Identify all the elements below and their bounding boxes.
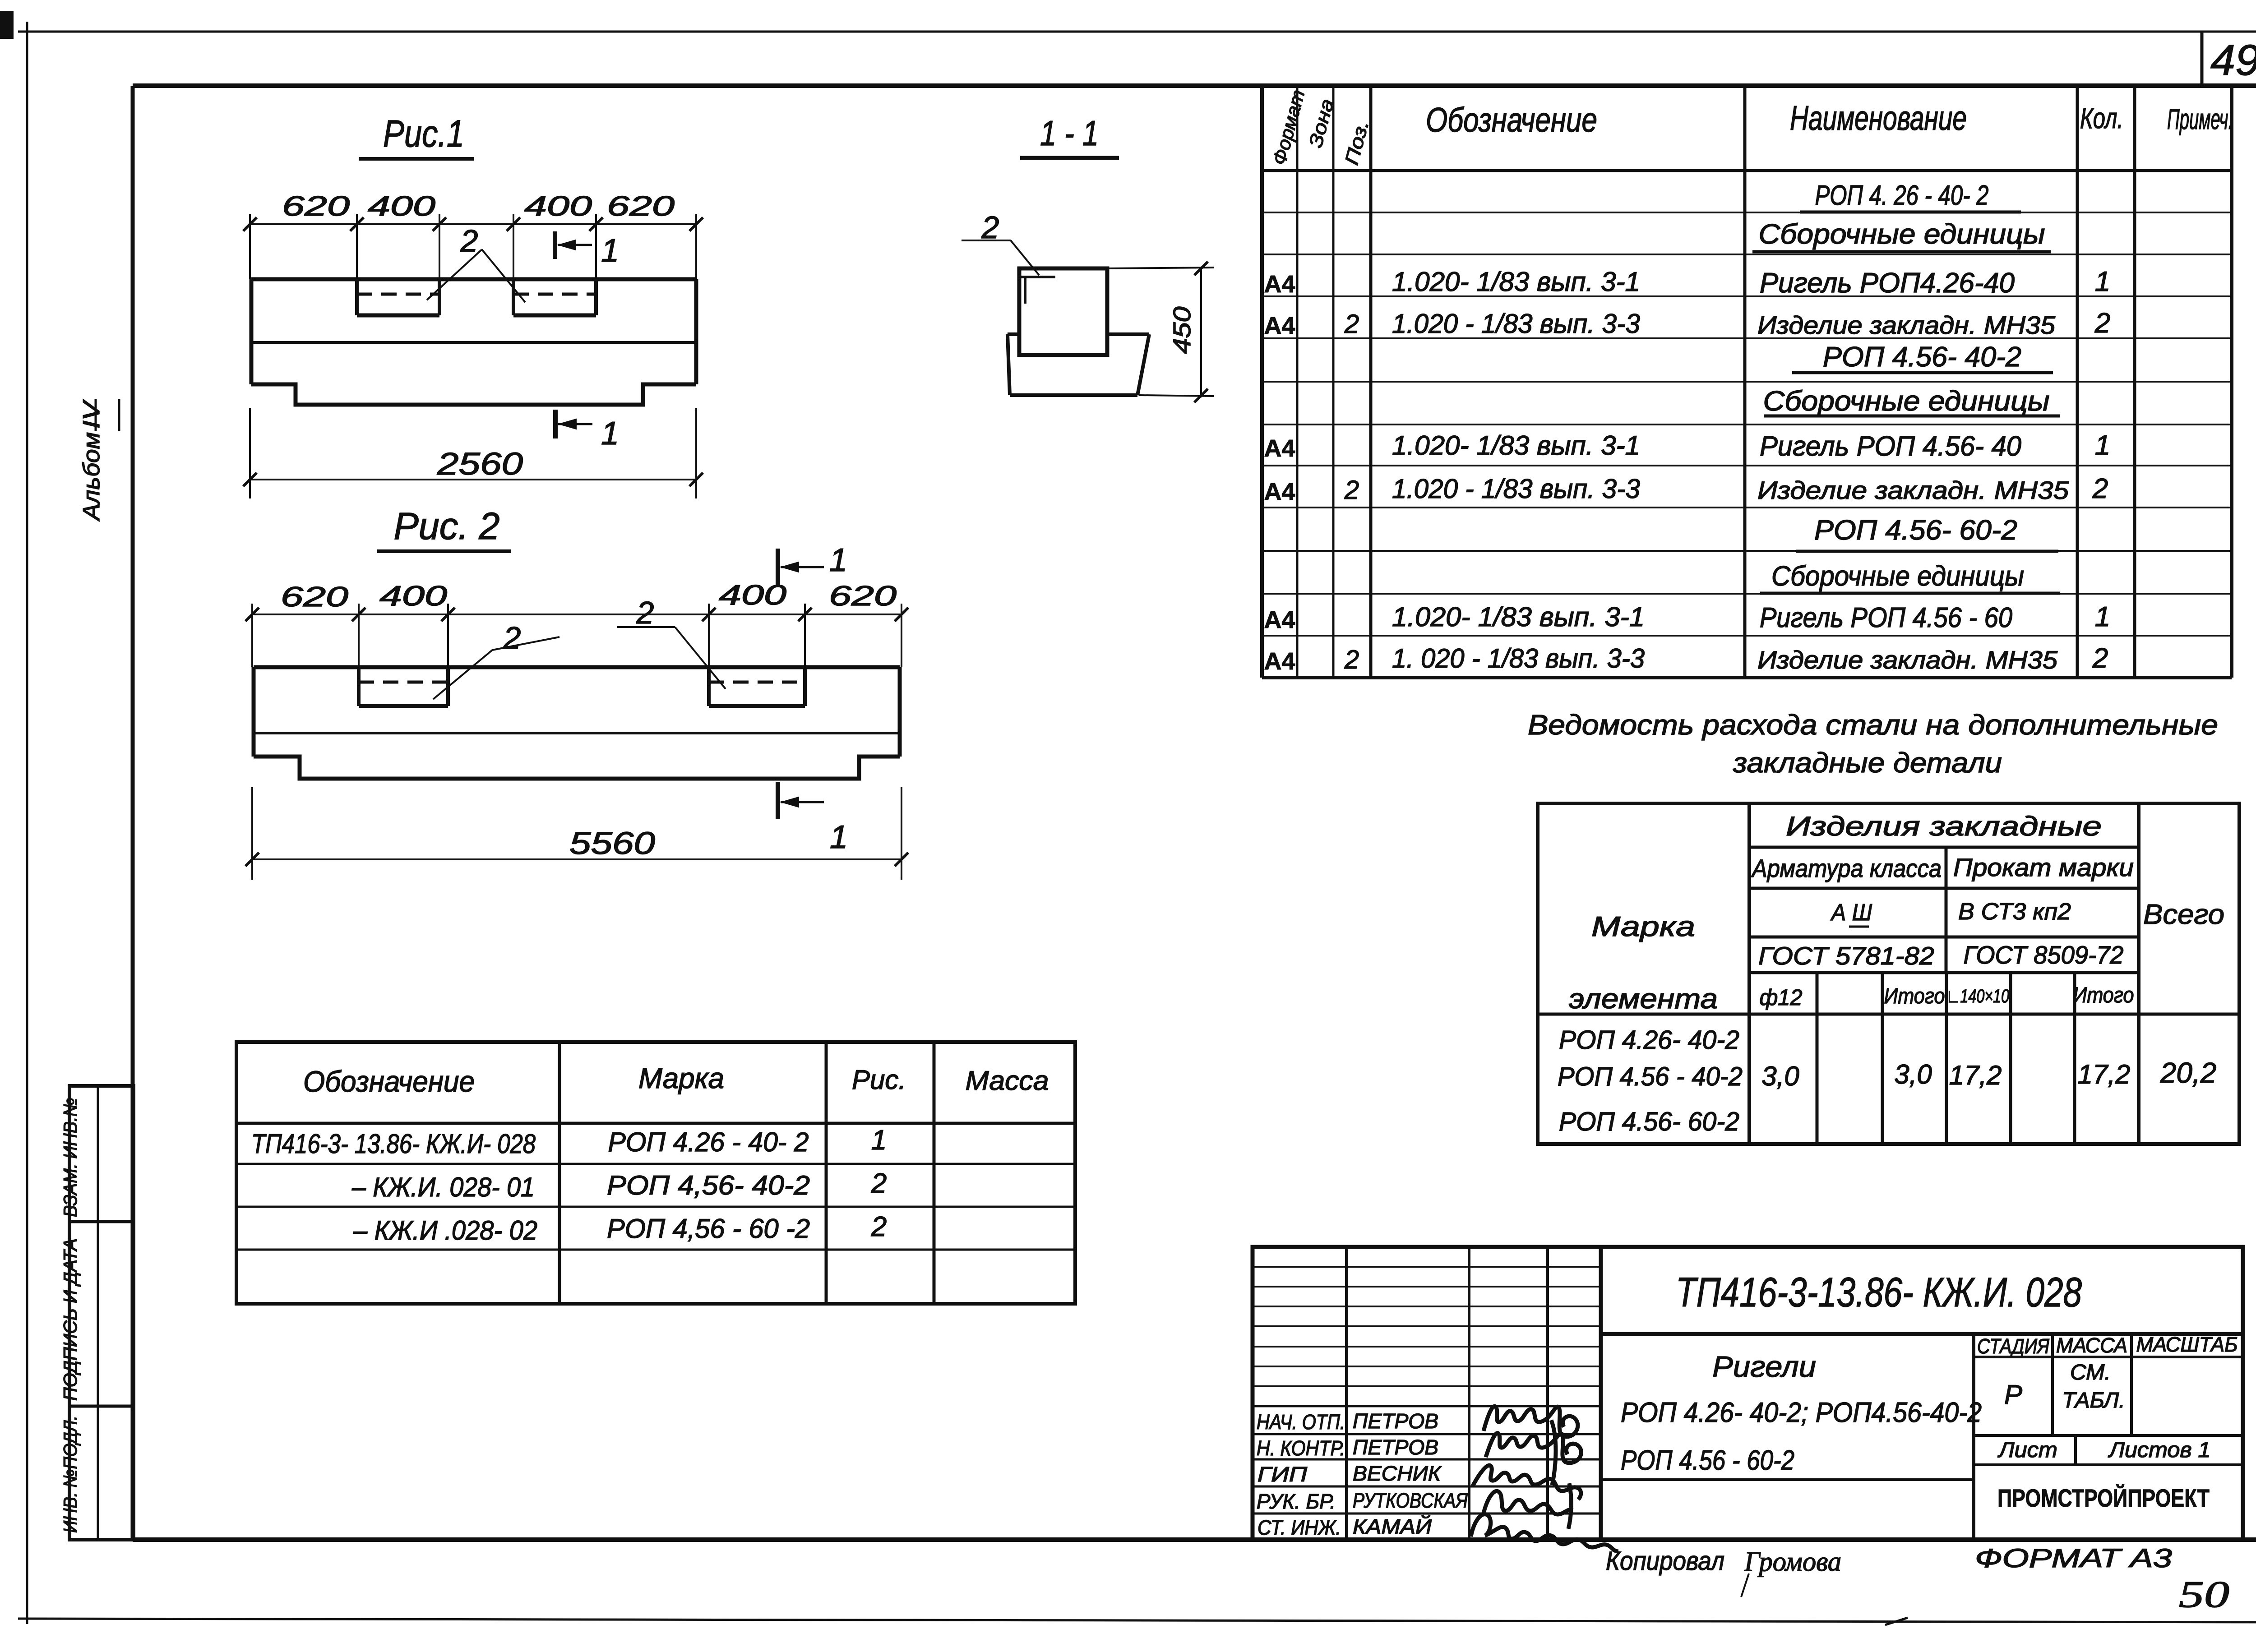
svg-text:В СТ3 кп2: В СТ3 кп2 bbox=[1958, 899, 2071, 925]
svg-text:А4: А4 bbox=[1264, 271, 1295, 298]
svg-text:РОП 4. 26 - 40- 2: РОП 4. 26 - 40- 2 bbox=[1815, 180, 1989, 211]
Рис.1 section mark 1 (top) bbox=[555, 231, 619, 269]
svg-text:IV: IV bbox=[79, 399, 105, 429]
section 1-1 title bbox=[1020, 113, 1119, 158]
svg-text:620: 620 bbox=[829, 581, 897, 612]
svg-text:А4: А4 bbox=[1264, 312, 1295, 339]
table row Изделие закладн. МН35 (1) bbox=[1264, 308, 2110, 339]
svg-text:450: 450 bbox=[1169, 307, 1196, 354]
svg-text:Ригель РОП 4.56- 40: Ригель РОП 4.56- 40 bbox=[1760, 431, 2021, 462]
Рис.2 notch 1 bbox=[359, 667, 448, 706]
svg-text:Альбом: Альбом bbox=[79, 432, 105, 521]
svg-text:Изделие закладн. МН35: Изделие закладн. МН35 bbox=[1757, 311, 2056, 339]
svg-text:ФОРМАТ А3: ФОРМАТ А3 bbox=[1975, 1544, 2172, 1573]
svg-text:Ведомость расхода стали: Ведомость расхода стали на дополнительны… bbox=[1528, 710, 2218, 741]
table row Сборочные единицы (2) bbox=[1763, 386, 2060, 417]
table row Ригель РОП 4.56-40 bbox=[1264, 430, 2110, 462]
svg-text:620: 620 bbox=[281, 581, 348, 613]
svg-text:Ригель РОП4.26-40: Ригель РОП4.26-40 bbox=[1760, 268, 2015, 299]
Рис.2 section mark 1 (bottom) bbox=[778, 782, 848, 855]
svg-text:Изделия закладные: Изделия закладные bbox=[1786, 811, 2102, 841]
svg-text:Громова: Громова bbox=[1744, 1546, 1841, 1577]
Рис.2 top dimension chain 620/400/400/620 bbox=[245, 580, 908, 667]
svg-text:– КЖ.И .028- 02: – КЖ.И .028- 02 bbox=[353, 1215, 537, 1246]
steel table values bbox=[1761, 1057, 2216, 1091]
table row Изделие закладн. МН35 (2) bbox=[1264, 473, 2108, 505]
svg-text:2: 2 bbox=[1344, 475, 1359, 505]
svg-text:ГОСТ 8509-72: ГОСТ 8509-72 bbox=[1964, 941, 2124, 969]
svg-text:1: 1 bbox=[601, 233, 619, 269]
svg-text:ПЕТРОВ: ПЕТРОВ bbox=[1353, 1435, 1438, 1459]
svg-text:НАЧ. ОТП.: НАЧ. ОТП. bbox=[1257, 1410, 1345, 1434]
svg-text:Листов 1: Листов 1 bbox=[2108, 1438, 2210, 1462]
svg-text:А4: А4 bbox=[1264, 606, 1295, 633]
svg-text:1: 1 bbox=[871, 1125, 887, 1156]
svg-text:5560: 5560 bbox=[569, 826, 655, 861]
svg-text:РОП 4.56- 40-2: РОП 4.56- 40-2 bbox=[1823, 341, 2021, 373]
svg-text:2: 2 bbox=[503, 620, 521, 655]
Рис.1 notch 1 bbox=[357, 279, 439, 315]
Рис.1 section mark 1 (bottom) bbox=[555, 410, 619, 452]
svg-text:РОП 4.26- 40-2; РОП4.56-40-2: РОП 4.26- 40-2; РОП4.56-40-2 bbox=[1621, 1397, 1982, 1428]
svg-text:МАССА: МАССА bbox=[2056, 1334, 2127, 1357]
svg-text:1: 1 bbox=[2095, 601, 2110, 632]
lower-left table row 3 bbox=[353, 1211, 887, 1246]
title block document name Ригели bbox=[1601, 1334, 1982, 1540]
svg-text:РОП 4,56 - 60 -2: РОП 4,56 - 60 -2 bbox=[607, 1214, 810, 1244]
title block document number bbox=[1601, 1269, 2243, 1334]
lower-left table grid bbox=[236, 1042, 1075, 1304]
svg-text:1.020 - 1/83 вып. 3-3: 1.020 - 1/83 вып. 3-3 bbox=[1392, 309, 1640, 339]
svg-text:400: 400 bbox=[368, 191, 435, 222]
Рис.1 beam outline bbox=[251, 279, 696, 405]
svg-text:620: 620 bbox=[607, 191, 675, 222]
svg-text:ТП416-3- 13.86- КЖ.И- 028: ТП416-3- 13.86- КЖ.И- 028 bbox=[251, 1129, 536, 1159]
svg-text:1.020- 1/83 вып. 3-1: 1.020- 1/83 вып. 3-1 bbox=[1392, 430, 1640, 461]
svg-text:РОП 4.56 - 40-2: РОП 4.56 - 40-2 bbox=[1558, 1062, 1743, 1091]
svg-text:Марка: Марка bbox=[638, 1062, 724, 1094]
table row РОП 4.56-40-2 bbox=[1792, 341, 2053, 373]
title block outer bbox=[1253, 1247, 2243, 1540]
svg-text:Ригели: Ригели bbox=[1712, 1350, 1816, 1383]
specification table headers bbox=[1268, 88, 2233, 167]
svg-text:А4: А4 bbox=[1264, 435, 1295, 462]
svg-text:РОП 4.56- 60-2: РОП 4.56- 60-2 bbox=[1814, 515, 2017, 546]
figure Рис.2 title bbox=[377, 505, 511, 551]
svg-text:3,0: 3,0 bbox=[1761, 1061, 1799, 1091]
svg-text:2: 2 bbox=[1344, 645, 1359, 674]
svg-text:Рис. 2: Рис. 2 bbox=[394, 505, 500, 547]
svg-text:620: 620 bbox=[282, 191, 350, 222]
svg-text:1.020 - 1/83 вып. 3-3: 1.020 - 1/83 вып. 3-3 bbox=[1392, 474, 1640, 504]
svg-text:Примеч.: Примеч. bbox=[2167, 103, 2233, 135]
svg-text:Н. КОНТР.: Н. КОНТР. bbox=[1257, 1436, 1345, 1460]
signature row ГИП Весник bbox=[1257, 1462, 1442, 1486]
handwritten signatures bbox=[1471, 1406, 1618, 1551]
scan artifact top-left corner bbox=[0, 11, 14, 39]
steel table header А III bbox=[1830, 900, 1872, 927]
steel table header Марка элемента bbox=[1569, 911, 1718, 1015]
svg-text:Прокат марки: Прокат марки bbox=[1953, 853, 2134, 881]
svg-text:СТАДИЯ: СТАДИЯ bbox=[1977, 1334, 2050, 1358]
svg-text:РОП 4.26 - 40- 2: РОП 4.26 - 40- 2 bbox=[608, 1127, 809, 1157]
svg-text:2: 2 bbox=[2092, 643, 2108, 674]
svg-text:1: 1 bbox=[829, 542, 847, 578]
svg-text:50: 50 bbox=[2179, 1574, 2229, 1615]
svg-text:∟140×10: ∟140×10 bbox=[1946, 985, 2009, 1006]
section 1-1 leader label 2 bbox=[962, 210, 1039, 275]
Рис.2 section mark 1 (top) bbox=[778, 542, 847, 586]
svg-text:1. 020 - 1/83 вып. 3-3: 1. 020 - 1/83 вып. 3-3 bbox=[1392, 643, 1645, 674]
svg-text:2: 2 bbox=[636, 595, 654, 630]
svg-text:1: 1 bbox=[830, 819, 848, 855]
svg-text:КАМАЙ: КАМАЙ bbox=[1353, 1514, 1432, 1538]
svg-text:Обозначение: Обозначение bbox=[1426, 101, 1597, 139]
svg-text:20,2: 20,2 bbox=[2160, 1057, 2217, 1089]
Рис.1 leader label 2 bbox=[427, 223, 525, 302]
svg-text:Копировал: Копировал bbox=[1606, 1546, 1724, 1576]
svg-text:закладные детали: закладные детали bbox=[1733, 748, 2002, 779]
steel table grid bbox=[1538, 803, 2239, 1144]
svg-text:1 - 1: 1 - 1 bbox=[1040, 113, 1099, 153]
svg-text:Марка: Марка bbox=[1591, 911, 1695, 942]
svg-text:Изделие закладн. МН35: Изделие закладн. МН35 bbox=[1757, 476, 2069, 504]
Рис.2 notch 2 bbox=[709, 667, 805, 706]
lower-left table row 2 bbox=[351, 1168, 887, 1202]
album label Альбом IV bbox=[79, 399, 119, 521]
svg-text:А4: А4 bbox=[1264, 478, 1295, 505]
sheet number box 49 bbox=[2202, 32, 2256, 86]
Рис.1 top dimension chain 620/400/400/620 bbox=[243, 191, 703, 279]
svg-text:2: 2 bbox=[2094, 308, 2110, 339]
svg-text:ТАБЛ.: ТАБЛ. bbox=[2062, 1389, 2125, 1412]
svg-text:Кол.: Кол. bbox=[2080, 102, 2123, 134]
table row Изделие закладн. МН35 (3) bbox=[1264, 643, 2108, 675]
svg-text:СМ.: СМ. bbox=[2070, 1361, 2111, 1384]
svg-text:1: 1 bbox=[2095, 430, 2110, 461]
Рис.2 bottom dimension 5560 bbox=[245, 787, 908, 880]
svg-text:РОП 4.56 - 60-2: РОП 4.56 - 60-2 bbox=[1621, 1445, 1794, 1476]
svg-text:Рис.1: Рис.1 bbox=[383, 112, 464, 155]
svg-text:Обозначение: Обозначение bbox=[303, 1065, 475, 1098]
table row Ригель РОП4.26-40 bbox=[1264, 266, 2110, 299]
svg-text:2: 2 bbox=[1344, 309, 1359, 339]
svg-text:Р: Р bbox=[2004, 1380, 2022, 1410]
svg-text:ПОДПИСЬ И ДАТА: ПОДПИСЬ И ДАТА bbox=[60, 1238, 81, 1401]
lower-left table headers bbox=[303, 1062, 1049, 1098]
svg-text:РОП 4.26- 40-2: РОП 4.26- 40-2 bbox=[1559, 1025, 1739, 1055]
Рис.2 beam outline bbox=[254, 667, 900, 779]
tick on bottom border bbox=[1885, 1618, 1908, 1625]
footer Копировал Громова bbox=[1606, 1546, 1841, 1597]
svg-text:400: 400 bbox=[524, 191, 592, 222]
svg-text:2560: 2560 bbox=[437, 446, 523, 481]
svg-text:17,2: 17,2 bbox=[1949, 1060, 2002, 1090]
signature row Н.КОНТР Петров bbox=[1257, 1435, 1438, 1460]
svg-text:ГИП: ГИП bbox=[1257, 1463, 1308, 1486]
svg-text:Рис.: Рис. bbox=[852, 1065, 906, 1095]
svg-text:Сборочные единицы: Сборочные единицы bbox=[1763, 386, 2050, 417]
specification table grid bbox=[1262, 87, 2232, 678]
svg-text:Сборочные единицы: Сборочные единицы bbox=[1771, 561, 2024, 592]
svg-text:ф12: ф12 bbox=[1760, 985, 1803, 1010]
svg-text:49: 49 bbox=[2210, 36, 2256, 84]
svg-text:ПЕТРОВ: ПЕТРОВ bbox=[1353, 1409, 1438, 1433]
section 1-1 dimension 450 bbox=[1109, 262, 1214, 402]
svg-text:Арматура класса: Арматура класса bbox=[1751, 854, 1942, 882]
svg-text:ИНВ. №ПОДЛ.: ИНВ. №ПОДЛ. bbox=[60, 1416, 81, 1533]
svg-text:Наименование: Наименование bbox=[1790, 99, 1967, 138]
svg-text:Лист: Лист bbox=[1997, 1438, 2057, 1462]
svg-text:2: 2 bbox=[871, 1168, 887, 1199]
svg-text:Масса: Масса bbox=[966, 1066, 1049, 1096]
svg-text:Изделие закладн. МН35: Изделие закладн. МН35 bbox=[1757, 646, 2058, 674]
section 1-1 column capital (trapezoid) bbox=[1008, 334, 1149, 395]
table row РОП 4.26-40-2 bbox=[1800, 180, 2021, 212]
svg-text:1: 1 bbox=[601, 415, 619, 452]
table row Сборочные единицы (3) bbox=[1760, 561, 2060, 593]
lower-left table row 1 bbox=[251, 1125, 887, 1159]
svg-text:ВЗАМ. ИНВ.№: ВЗАМ. ИНВ.№ bbox=[60, 1098, 81, 1217]
svg-text:РУТКОВСКАЯ: РУТКОВСКАЯ bbox=[1353, 1489, 1468, 1512]
Рис.2 leader label 2 (right) bbox=[617, 595, 726, 689]
svg-text:ТП416-3-13.86- КЖ.И. 028: ТП416-3-13.86- КЖ.И. 028 bbox=[1676, 1269, 2082, 1315]
figure Рис.1 title bbox=[359, 112, 474, 159]
svg-text:ГОСТ 5781-82: ГОСТ 5781-82 bbox=[1758, 941, 1934, 970]
svg-text:Всего: Всего bbox=[2143, 899, 2224, 930]
svg-text:2: 2 bbox=[460, 223, 478, 258]
section 1-1 beam cross-section bbox=[1019, 268, 1107, 355]
svg-text:ВЕСНИК: ВЕСНИК bbox=[1353, 1462, 1442, 1485]
signature row НАЧ.ОТП Петров bbox=[1257, 1409, 1438, 1434]
svg-text:ПРОМСТРОЙПРОЕКТ: ПРОМСТРОЙПРОЕКТ bbox=[1997, 1484, 2210, 1512]
stamp value СМ.ТАБЛ. bbox=[2062, 1361, 2125, 1412]
svg-text:1.020- 1/83 вып. 3-1: 1.020- 1/83 вып. 3-1 bbox=[1392, 267, 1640, 297]
svg-text:17,2: 17,2 bbox=[2078, 1059, 2131, 1089]
table row РОП 4.56-60-2 bbox=[1796, 515, 2058, 551]
svg-text:400: 400 bbox=[379, 581, 447, 612]
svg-text:РОП 4.56- 60-2: РОП 4.56- 60-2 bbox=[1559, 1107, 1739, 1136]
svg-text:А4: А4 bbox=[1264, 648, 1295, 675]
svg-text:3,0: 3,0 bbox=[1894, 1059, 1932, 1089]
title block signature grid bbox=[1253, 1247, 1601, 1540]
table row Ригель РОП 4.56-60 bbox=[1264, 601, 2110, 633]
signature row РУК.БР. Рутковская bbox=[1257, 1489, 1468, 1513]
signature row СТ.ИНЖ. Камай bbox=[1257, 1514, 1432, 1539]
title block stamp grid bbox=[1974, 1334, 2243, 1465]
svg-text:1.020- 1/83 вып. 3-1: 1.020- 1/83 вып. 3-1 bbox=[1392, 602, 1645, 632]
svg-text:Итого: Итого bbox=[1884, 984, 1945, 1008]
svg-text:Итого: Итого bbox=[2073, 983, 2134, 1007]
svg-text:РУК. БР.: РУК. БР. bbox=[1257, 1490, 1336, 1513]
Рис.2 leader label 2 (left) bbox=[433, 620, 559, 699]
Рис.1 notch 2 bbox=[513, 279, 596, 315]
svg-text:1: 1 bbox=[2095, 266, 2110, 297]
svg-text:МАСШТАБ: МАСШТАБ bbox=[2136, 1333, 2238, 1356]
svg-text:Сборочные единицы: Сборочные единицы bbox=[1759, 219, 2045, 250]
svg-text:2: 2 bbox=[871, 1211, 887, 1242]
svg-text:РОП 4,56- 40-2: РОП 4,56- 40-2 bbox=[607, 1170, 810, 1200]
svg-text:400: 400 bbox=[719, 580, 786, 611]
svg-text:2: 2 bbox=[2092, 473, 2108, 504]
Рис.1 bottom dimension 2560 bbox=[243, 408, 703, 498]
sidebar stamp boxes bbox=[69, 1086, 134, 1540]
svg-text:элемента: элемента bbox=[1569, 983, 1718, 1015]
svg-text:Ригель РОП 4.56 - 60: Ригель РОП 4.56 - 60 bbox=[1760, 602, 2012, 633]
table row Сборочные единицы (1) bbox=[1752, 219, 2051, 252]
steel table row marks bbox=[1558, 1025, 1743, 1136]
svg-text:– КЖ.И. 028- 01: – КЖ.И. 028- 01 bbox=[351, 1172, 535, 1202]
svg-text:А Ш: А Ш bbox=[1830, 900, 1872, 926]
svg-text:СТ. ИНЖ.: СТ. ИНЖ. bbox=[1257, 1516, 1341, 1539]
